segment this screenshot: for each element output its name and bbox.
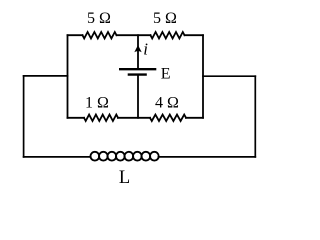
inductor L coil	[91, 152, 159, 161]
wire bottom-right segment	[186, 117, 203, 119]
wire outer bottom-right segment	[159, 156, 256, 158]
svg-text:4 Ω: 4 Ω	[155, 95, 179, 112]
wire outer right vertical	[254, 76, 256, 157]
svg-text:5 Ω: 5 Ω	[87, 10, 111, 27]
resistor R1 5ohm top-left	[83, 32, 117, 38]
wire inner right vertical	[202, 35, 204, 118]
svg-text:E: E	[161, 66, 171, 83]
current arrowhead i	[134, 45, 141, 52]
svg-text:L: L	[119, 168, 130, 188]
wire outer left vertical	[23, 76, 25, 157]
resistor R4 4ohm bottom-right	[150, 115, 186, 121]
svg-text:i: i	[143, 40, 148, 59]
wire top-right segment	[185, 34, 204, 36]
wire inner left vertical	[67, 35, 69, 118]
battery E plates	[119, 69, 156, 74]
svg-text:5 Ω: 5 Ω	[153, 10, 177, 27]
svg-text:1 Ω: 1 Ω	[85, 95, 109, 112]
wire outer left horizontal	[24, 75, 68, 77]
resistor R2 5ohm top-right	[151, 32, 185, 38]
wire middle branch lower	[137, 76, 139, 118]
wire bottom-middle segment	[118, 117, 150, 119]
wire top-left segment	[68, 34, 83, 36]
resistor R3 1ohm bottom-left	[84, 115, 118, 121]
wire outer bottom-left segment	[24, 156, 91, 158]
wire middle branch upper	[137, 35, 139, 68]
wire top-middle segment	[117, 34, 151, 36]
wire bottom-left segment	[68, 117, 85, 119]
wire outer right horizontal	[203, 75, 255, 77]
